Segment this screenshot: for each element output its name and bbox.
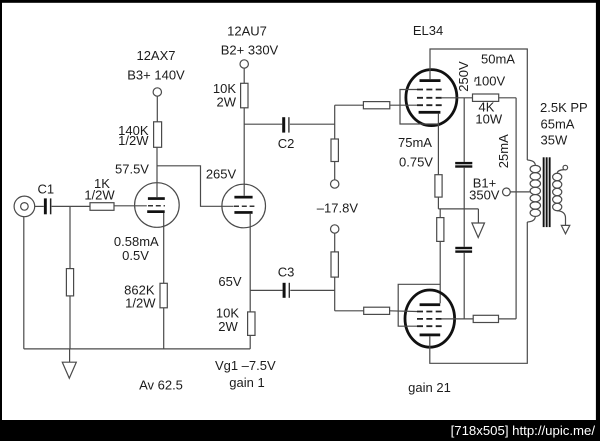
svg-text:C2: C2: [278, 136, 295, 151]
wire input jack to C1: [35, 205, 44, 207]
wire cathode bus to R12: [439, 209, 441, 218]
wire junction A down to grid resistor: [69, 206, 71, 268]
svg-text:C3: C3: [278, 265, 295, 280]
svg-text:12AX7: 12AX7: [136, 48, 175, 63]
wire V4 screen lead: [442, 318, 473, 320]
svg-text:2.5K PP: 2.5K PP: [540, 100, 588, 115]
svg-text:Av 62.5: Av 62.5: [139, 378, 183, 393]
resistor R14 4K bottom: [473, 315, 498, 322]
resistor R7 bias 2: [331, 252, 338, 277]
wire V4 plate down and over to transformer: [430, 222, 528, 363]
ground input: [62, 349, 76, 378]
ground cathode bus: [472, 209, 485, 238]
svg-text:265V: 265V: [206, 167, 237, 182]
wire C1 to junction A: [52, 205, 90, 207]
frame left: [0, 0, 2, 441]
wire 862K to ground bus: [163, 308, 165, 349]
transformer T1 primary: [527, 160, 540, 222]
capacitor C2: [282, 117, 289, 132]
input jack J1: [14, 196, 35, 217]
wire node 57.5V to 12AU7 grid: [157, 166, 234, 207]
svg-text:[718x505] http://upic.me/: [718x505] http://upic.me/: [451, 423, 596, 438]
transformer T1 core: [543, 157, 551, 227]
svg-text:25mA: 25mA: [496, 134, 511, 168]
svg-text:35W: 35W: [541, 133, 568, 148]
terminal bias 1: [331, 180, 339, 188]
terminal secondary: [563, 165, 568, 170]
svg-text:65mA: 65mA: [541, 116, 575, 131]
wire 12AX7 cathode down: [163, 213, 165, 283]
wire ground bus: [24, 348, 250, 350]
svg-text:C1: C1: [37, 182, 54, 197]
terminal bias 2: [331, 225, 339, 233]
wire cathode bus: [438, 208, 478, 210]
wire V3 grid lead: [390, 104, 417, 106]
svg-text:gain 1: gain 1: [229, 375, 264, 390]
svg-text:50mA: 50mA: [481, 52, 515, 67]
frame top: [0, 0, 600, 3]
wire R12 down to V4 cathode: [439, 241, 441, 303]
wire V3 plate up and over to transformer: [430, 49, 527, 160]
resistor R10 4K 10W top: [473, 94, 499, 101]
resistor R11 cathode top: [435, 175, 442, 197]
wire bias node 1 to stopper: [335, 104, 364, 106]
tube V4 EL34 bottom: [405, 290, 455, 347]
wire C2 to bias node 1: [290, 123, 335, 125]
svg-text:10W: 10W: [475, 112, 502, 127]
svg-text:0.5V: 0.5V: [122, 248, 149, 263]
svg-text:0.75V: 0.75V: [399, 154, 433, 169]
svg-text:Vg1 –7.5V: Vg1 –7.5V: [215, 358, 276, 373]
svg-text:57.5V: 57.5V: [115, 162, 149, 177]
svg-text:12AU7: 12AU7: [227, 23, 267, 38]
wire bias node 2 vertical: [334, 277, 336, 311]
wire plate node to C2: [244, 123, 282, 125]
wire B1 to transformer center tap: [510, 191, 530, 193]
wire B2 to 10K: [243, 68, 245, 83]
svg-text:B2+ 330V: B2+ 330V: [221, 43, 279, 58]
wire 1K to 12AX7 grid: [114, 205, 147, 207]
tube V1 12AX7: [135, 183, 180, 228]
svg-text:75mA: 75mA: [398, 135, 432, 150]
wire V3 cathode down: [437, 114, 439, 175]
svg-text:gain 21: gain 21: [408, 380, 451, 395]
svg-text:1/2W: 1/2W: [84, 187, 115, 202]
wire bias node 2 to stopper: [335, 310, 364, 312]
wire bias node 1 vertical: [334, 105, 336, 139]
resistor R4 862K: [160, 283, 167, 308]
wire screen rail vertical: [515, 98, 517, 319]
svg-text:250V: 250V: [456, 61, 471, 92]
wire 4K to screen rail: [499, 97, 516, 99]
wire bias 2 to resistor: [334, 233, 336, 252]
wire 4K bottom to screen rail: [499, 318, 517, 320]
svg-text:EL34: EL34: [413, 23, 443, 38]
capacitor C3: [283, 283, 290, 298]
terminal B2: [240, 60, 248, 68]
tube V2 12AU7: [222, 184, 266, 228]
resistor R1 1K: [90, 203, 114, 211]
resistor R6 bias 1: [331, 139, 338, 162]
wire 12AU7 cathode down: [249, 214, 251, 312]
wire B3 to 140K: [156, 96, 158, 122]
resistor R5 10K 2W: [241, 83, 248, 108]
wire bias 1 to terminal: [334, 162, 336, 180]
resistor R8 10K 2W lower: [248, 312, 255, 336]
terminal B1: [503, 188, 511, 196]
frame right: [596, 0, 600, 441]
wire V3 suppressor box: [400, 90, 438, 125]
capacitor C1: [44, 198, 52, 214]
tube V3 EL34 top: [406, 70, 457, 126]
svg-text:65V: 65V: [218, 274, 241, 289]
svg-text:B3+ 140V: B3+ 140V: [127, 67, 185, 82]
stray tick mark: [474, 77, 477, 82]
svg-text:350V: 350V: [469, 188, 500, 203]
wire V4 grid lead: [390, 310, 417, 313]
svg-text:1/2W: 1/2W: [125, 295, 156, 310]
resistor R13 grid stopper bottom: [364, 307, 390, 314]
terminal B3: [153, 88, 161, 96]
wire V3 screen lead: [442, 97, 473, 99]
svg-text:100V: 100V: [475, 74, 506, 89]
wire R11 to cathode bus: [437, 197, 439, 209]
wire jack sleeve down to ground bus: [23, 217, 25, 349]
ground secondary: [561, 225, 570, 233]
wire 140K to 12AX7 plate: [156, 147, 158, 197]
svg-text:0.58mA: 0.58mA: [114, 234, 159, 249]
capacitor screen bypass bottom: [455, 209, 472, 319]
wire grid resistor to ground bus: [69, 296, 71, 349]
resistor R2 grid return: [66, 269, 73, 296]
wire cathode node to C3: [250, 289, 282, 291]
resistor R9 grid stopper top: [363, 102, 389, 109]
transformer T1 secondary: [553, 170, 566, 226]
svg-text:2W: 2W: [218, 319, 238, 334]
WIRES-LEFT: [24, 206, 250, 349]
svg-text:2W: 2W: [217, 95, 237, 110]
resistor R3 140K: [154, 122, 162, 148]
watermark bar: [0, 420, 600, 441]
resistor R12 cathode bottom: [437, 218, 444, 242]
wire 10K to 12AU7 plate: [243, 108, 245, 196]
svg-text:1/2W: 1/2W: [118, 133, 149, 148]
wire 10K lower to bus: [249, 335, 251, 349]
capacitor screen bypass top: [455, 98, 472, 209]
wire C3 to bias node 2: [290, 289, 334, 291]
svg-text:–17.8V: –17.8V: [317, 201, 359, 216]
wire V4 suppressor box: [398, 284, 440, 326]
